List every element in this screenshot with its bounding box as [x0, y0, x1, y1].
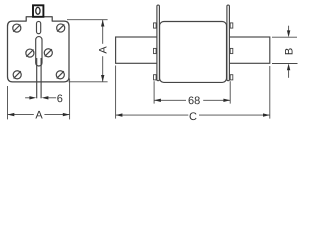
blade edge right (front view)	[40, 58, 42, 98]
dimension B: extension lines	[272, 36, 297, 38]
screw bottom-left	[13, 71, 21, 79]
screw mid-right	[44, 49, 52, 57]
side view left blade	[116, 37, 158, 63]
dimension C: extension lines	[115, 66, 117, 119]
screw top-left	[13, 24, 21, 32]
side view body	[160, 22, 227, 83]
screw bottom-right	[56, 71, 64, 79]
svg-text:A: A	[97, 46, 109, 54]
dimension A horizontal: dimension line and arrows	[8, 113, 70, 116]
side view right blade	[228, 37, 270, 63]
dimension A vertical: extension lines	[67, 19, 108, 21]
screw top-right	[57, 24, 65, 32]
svg-text:B: B	[284, 48, 296, 55]
svg-text:C: C	[189, 111, 197, 123]
screw mid-left	[26, 49, 34, 57]
dimension 6: arrows	[25, 96, 56, 99]
fuse front view body	[8, 17, 70, 82]
plate screw lugs right plate	[230, 23, 233, 80]
lower slot	[36, 37, 42, 66]
upper slot	[37, 21, 41, 33]
svg-text:6: 6	[57, 93, 63, 105]
side view right end plate	[227, 5, 230, 81]
svg-text:68: 68	[188, 95, 200, 107]
side view left end plate	[157, 5, 160, 81]
dimension A vertical: dimension line and arrows	[101, 20, 104, 82]
dimension C: dimension line and arrows	[116, 113, 270, 116]
dimension B: arrows outside	[287, 26, 290, 78]
indicator tab	[33, 5, 43, 16]
dimension 68: extension lines	[153, 81, 155, 103]
indicator hole 0	[36, 7, 40, 14]
blade edge left (front view)	[36, 58, 38, 98]
svg-text:A: A	[35, 109, 43, 121]
dimension A horizontal: extension lines	[7, 86, 9, 119]
plate screw lugs left plate	[154, 23, 157, 80]
dimension 68: dimension line and arrows	[154, 99, 230, 102]
